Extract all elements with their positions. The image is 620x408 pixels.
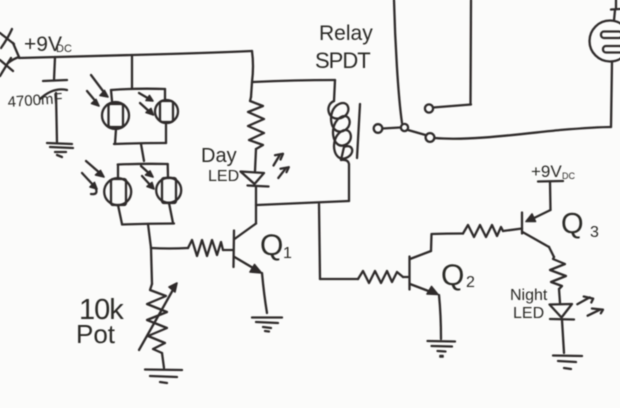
supply bar (right) [538,180,563,183]
wire lamp plug down [611,62,612,128]
wire stub to LDR4 [167,164,170,178]
wire Night LED to ground [562,320,564,353]
light arrows LDR4 [141,166,154,189]
svg-text:Relay: Relay [319,22,373,45]
wire Day LED to relay box bottom [255,187,257,205]
resistor R2 [188,240,223,256]
svg-text:DC: DC [56,43,72,55]
label +9VDC (left) [24,33,72,56]
wire to R3 [320,278,358,280]
transistor Q3 (PNP) [522,210,551,247]
wire R4 to Q3 base [503,229,522,232]
diode Night LED D2 [550,304,575,320]
wire NC contact to vertical [433,105,471,108]
transistor Q2 [410,251,439,295]
wire R2 to Q1 base [223,249,233,251]
wire photocell box1 bottom [114,123,166,144]
light arrows Night LED [577,297,603,316]
svg-text:Q: Q [260,229,283,262]
lamp plug body [590,21,620,62]
wire stub to LDR2 [164,89,166,100]
svg-text:1: 1 [283,245,292,262]
ground (capacitor) [47,143,73,157]
wire capacitor to ground [56,93,57,143]
svg-text:+9V: +9V [531,162,562,181]
wire relay box bottom [257,201,349,205]
ground (Night LED) [553,356,582,370]
battery clip connector J1 [0,29,19,76]
wire stub to LDR1 [111,90,112,101]
wire R3 to Q2 base [403,276,409,278]
lamp plug slot 1 [601,32,620,39]
wire top rail [19,51,252,58]
svg-text:LED: LED [208,168,239,185]
relay armature [408,130,426,135]
wire from top edge to relay pole [394,0,402,123]
relay throw circle (NC) [425,104,433,112]
svg-text:Pot: Pot [76,319,116,349]
label Q3 [561,208,599,241]
lamp plug slot 2 [603,46,620,53]
wire from top edge to NC contact [469,0,472,105]
svg-text:Q: Q [441,259,464,292]
wire relay box bottom down to Q2 stage [319,204,320,279]
potentiometer wiper arrow [139,283,177,350]
svg-text:Night: Night [510,287,548,304]
resistor R1 [248,97,264,149]
wire Q1 collector up [255,205,257,224]
wire Q3 collector to R5 [549,247,554,257]
wire photocell box2 bottom [118,203,174,225]
photoresistor LDR3 [104,178,131,205]
label +9VDC (right) [531,162,575,181]
wire link box1 to box2 [141,144,144,161]
wire rail to capacitor [54,57,55,80]
wire rail down to R1/relay branch [252,51,253,82]
ground (pot) [145,370,182,384]
wire R5 to Night LED [559,289,560,303]
svg-text:SPDT: SPDT [315,48,370,73]
wire photocell box2 top [118,163,168,166]
wire rail down to photocell bridge [131,55,133,88]
wire coil bottom to box [341,160,349,201]
wire stub to LDR3 [117,165,119,178]
light arrows LDR1 [87,75,108,106]
label Q2 [441,259,475,292]
light arrows Day LED [274,154,289,178]
wire Q2 emitter to ground [439,295,441,339]
relay core bar [357,104,360,158]
transistor Q1 [234,224,262,274]
ground (Q1) [252,318,282,332]
photoresistor LDR4 [156,178,181,203]
light arrows LDR2 [139,93,154,115]
wire photocell box1 top [111,89,165,90]
relay throw circle (NO) [426,133,435,142]
wire node A down to pot [151,248,152,284]
diode Day LED D1 [241,172,269,187]
resistor R4 [463,225,503,237]
relay coil L1 [328,80,352,160]
svg-text:Q: Q [561,208,584,240]
ground (Q2) [428,341,456,357]
node A junction wire to R2 [151,247,188,250]
svg-text:Day: Day [201,145,237,167]
wire throw to lamp [435,127,612,139]
relay pole circle [401,124,408,131]
wire Q2 collector up and right [431,234,463,252]
photoresistor LDR2 [155,100,178,123]
resistor R3 [358,271,403,283]
wire supply to Q3 emitter [549,182,552,210]
resistor R5 [550,257,566,289]
svg-text:DC: DC [562,171,575,181]
wire into R1 [251,82,252,97]
potentiometer 10k zigzag [147,284,167,353]
wire pot to ground [162,353,164,368]
wire Q1 emitter to ground [262,273,267,313]
relay contact pivot circle [374,124,383,133]
svg-text:LED: LED [513,305,544,322]
lamp plug neck [611,0,620,21]
light arrows LDR3 [82,161,104,194]
capacitor C1 4700mF [40,80,67,99]
svg-text:2: 2 [466,274,475,291]
svg-text:3: 3 [590,224,599,241]
wire pivot link [383,128,401,129]
wire relay box top [253,80,335,82]
label Q1 [260,229,292,262]
wire R1 to Day LED [255,149,256,171]
wire bridge to node A [148,224,151,248]
photoresistor LDR1 [102,102,129,129]
